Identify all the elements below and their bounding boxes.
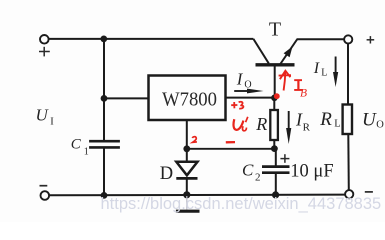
resistor RL body [343,105,352,135]
wire bottom rail [49,194,345,197]
annotation red arrow IB [279,71,291,91]
node junction C1 / bottom rail [101,192,108,199]
svg-text:U: U [362,109,377,130]
ground bar [176,210,200,213]
wire RL lower [347,134,350,190]
wire C1 branch vertical upper [103,39,105,141]
node junction diode / bottom rail [183,191,190,198]
arrow IL current [333,57,338,88]
svg-text:I: I [236,69,244,88]
node junction C2 / bottom rail [272,191,279,198]
wire RL upper [347,43,349,104]
label + of C2 [280,154,289,163]
svg-text:L: L [334,119,340,130]
capacitor C2 plates [262,167,290,173]
svg-text:I: I [50,116,54,127]
diode D triangle [176,162,197,176]
op-amp W7800 regulator box [149,76,226,121]
svg-text:W7800: W7800 [162,89,217,111]
node junction base / regulator output [271,95,278,102]
terminal output + [344,35,352,43]
svg-text:O: O [244,79,251,90]
diode D cathode bar [176,177,197,180]
wire regulator output [226,97,276,99]
node junction R bottom / C2 / adjust wire [271,145,278,152]
node red annotated junction dot [274,93,280,99]
wire regulator ground pin [186,121,188,163]
node junction top rail / C1 [100,36,107,43]
transistor T base bar [256,63,295,66]
svg-text:T: T [269,19,281,41]
svg-text:10 μF: 10 μF [290,162,333,182]
resistor R body [270,110,278,140]
svg-text:L: L [321,68,327,79]
annotation minus dash [226,141,235,143]
wire C2 upper [275,149,277,167]
wire adjust node horizontal [187,148,275,150]
svg-text:R: R [255,114,267,134]
wire diode to bottom rail [186,178,188,195]
wire R upper [273,98,275,110]
transistor T emitter arrow [284,47,293,58]
transistor T emitter lead [280,40,297,65]
wire regulator input [104,97,149,99]
wire top rail right segment [297,38,345,40]
wire R lower [273,140,275,149]
label - at input terminal [40,185,48,187]
transistor T collector lead [253,39,268,64]
node junction ground pin / adjust wire [183,145,190,152]
annotation 2 [192,137,197,143]
svg-text:U: U [36,105,50,124]
wire C2 lower [275,173,277,195]
svg-text:C: C [71,136,82,152]
label + at input terminal [39,47,50,57]
annotation Uo' [234,117,248,131]
label - at output terminal [365,191,373,193]
svg-text:C: C [242,160,254,179]
terminal input + [40,35,49,44]
svg-text:D: D [160,164,173,184]
capacitor C1 plates [89,141,120,147]
svg-text:2: 2 [255,172,261,184]
wire base vertical [274,65,276,98]
svg-text:R: R [319,109,332,130]
terminal output - [345,190,353,198]
arrow IO current [234,89,263,94]
watermark [101,195,382,214]
label + at output terminal [367,36,375,43]
svg-text:1: 1 [84,146,89,157]
svg-text:B: B [300,88,307,100]
svg-text:I: I [313,60,320,77]
ground stem [186,196,188,210]
svg-text:R: R [303,122,311,134]
annotation label IB [294,79,307,99]
svg-text:O: O [376,120,384,131]
annotation +3 [231,102,243,109]
wire C1 branch vertical lower [103,147,105,195]
wire top rail left segment [49,38,254,40]
terminal input - [41,191,50,200]
node junction C1 / regulator input [101,95,108,102]
arrow IR current [286,111,291,144]
